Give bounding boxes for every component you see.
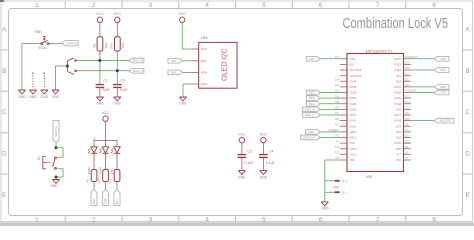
svg-text:D12: D12 (335, 123, 340, 126)
node junction ENC_B/R8/C1 (98, 59, 101, 62)
svg-text:GND: GND (29, 95, 37, 99)
svg-text:VCC: VCC (113, 12, 121, 16)
pin SDA of U1 (191, 71, 199, 73)
net flag ENC_B (ESP32 left) (303, 107, 321, 112)
svg-text:3: 3 (149, 2, 153, 9)
svg-text:IO19: IO19 (394, 96, 401, 100)
pin wire (262, 143, 264, 155)
svg-text:IO12: IO12 (350, 124, 357, 128)
op module U1 OLED I2C box (199, 42, 237, 88)
svg-text:SWITCH: SWITCH (303, 136, 314, 140)
svg-text:EC11: EC11 (38, 46, 46, 50)
svg-text:D10: D10 (335, 146, 340, 149)
column ticks top (65, 1, 406, 9)
svg-text:D11: D11 (335, 152, 340, 155)
wire (320, 108, 340, 110)
svg-text:IO0: IO0 (396, 130, 401, 134)
module U4 pin stubs right (404, 59, 411, 160)
capacitor C3 (113, 85, 122, 88)
column ticks bottom (65, 216, 406, 222)
pin GND of U1 (191, 83, 199, 85)
node junction ENC_A/R10/C3 (116, 69, 119, 72)
wire S1 pin bridge top (56, 148, 63, 158)
svg-text:5: 5 (262, 2, 266, 9)
svg-text:IO14: IO14 (350, 119, 357, 123)
svg-text:J1-1: J1-1 (341, 190, 347, 194)
svg-text:BLU: BLU (309, 102, 315, 106)
row ticks right (463, 50, 473, 174)
svg-text:D35: D35 (335, 84, 340, 87)
svg-text:IO13: IO13 (350, 136, 357, 140)
node junction S1 top (55, 146, 58, 149)
net flag SWITCH (above S1) (53, 120, 59, 143)
svg-text:D17: D17 (405, 112, 410, 115)
svg-text:2: 2 (92, 2, 96, 9)
svg-text:GND: GND (440, 57, 446, 61)
pin wire (99, 87, 101, 97)
svg-text:GND: GND (440, 91, 446, 95)
wire (116, 55, 118, 84)
svg-text:D18: D18 (405, 101, 410, 104)
svg-text:IO5: IO5 (396, 108, 401, 112)
frame row letters left (2, 26, 7, 199)
svg-text:R8: R8 (92, 43, 96, 47)
svg-text:R3: R3 (108, 179, 112, 183)
pin wire (116, 23, 118, 37)
svg-text:VCC: VCC (178, 12, 186, 16)
row ticks left (1, 50, 9, 174)
svg-text:C2: C2 (247, 150, 251, 154)
net flag SCL (168, 58, 183, 63)
svg-text:6: 6 (319, 2, 323, 9)
net flag BUZZER (ESP32 right) (434, 118, 454, 123)
svg-text:RED: RED (92, 199, 96, 205)
svg-text:A: A (2, 26, 7, 33)
net flag GRN (103, 190, 109, 206)
svg-text:GND: GND (394, 91, 402, 95)
svg-text:VCC: VCC (102, 111, 110, 115)
svg-text:GND: GND (96, 102, 104, 106)
wire LED branch (94, 141, 117, 147)
svg-text:ENC_B: ENC_B (133, 59, 143, 63)
net flag RED (91, 190, 97, 206)
wire (49, 43, 62, 45)
svg-text:IO21: IO21 (394, 85, 401, 89)
pin wire (116, 87, 118, 97)
bottom gray band (0, 222, 474, 226)
svg-text:GND: GND (50, 184, 58, 188)
frame column numbers bottom (35, 216, 436, 223)
ground (179, 97, 186, 101)
net flag ENC_B (129, 58, 144, 63)
svg-text:C4: C4 (269, 150, 273, 154)
svg-text:R2: R2 (97, 179, 101, 183)
wire (56, 66, 68, 90)
LED D3 (111, 147, 120, 154)
LED D2 (100, 147, 109, 154)
ground (18, 90, 25, 94)
svg-text:D: D (2, 151, 7, 158)
wire (411, 69, 434, 71)
wire (411, 120, 434, 122)
svg-text:IO35: IO35 (350, 85, 357, 89)
pin wire (116, 51, 118, 55)
net flag GND (ESP32 right) (434, 90, 449, 95)
svg-text:GND: GND (350, 130, 358, 134)
switch SW1 contacts and lever (41, 40, 49, 44)
svg-text:7: 7 (376, 2, 380, 9)
wire (21, 44, 23, 90)
LED D1 (88, 147, 97, 154)
net flag GRN (ESP32 left) (307, 96, 321, 101)
svg-text:3V3: 3V3 (350, 57, 356, 61)
wire (411, 86, 434, 88)
pin wire (105, 121, 107, 140)
svg-text:BUZZER: BUZZER (440, 119, 451, 123)
switch SW1 actuator (43, 37, 46, 41)
svg-text:IO16: IO16 (394, 119, 401, 123)
net flag GND (ESP32 left) (306, 130, 321, 135)
wire (55, 177, 57, 179)
svg-text:C: C (465, 109, 470, 116)
net flag SCL (ESP32 right) (434, 68, 449, 73)
svg-text:GND: GND (260, 176, 268, 180)
svg-text:SWITCH: SWITCH (67, 41, 78, 45)
svg-text:IO27: IO27 (350, 113, 357, 117)
svg-text:D34: D34 (335, 79, 340, 82)
svg-text:10K: 10K (104, 43, 108, 48)
svg-text:GRN: GRN (309, 96, 315, 100)
svg-text:VN-IO39: VN-IO39 (350, 74, 362, 78)
svg-text:BLU: BLU (115, 199, 119, 204)
encoder rotary contacts: common pole (67, 58, 76, 75)
svg-text:U$1: U$1 (201, 35, 209, 40)
svg-text:GND: GND (18, 95, 26, 99)
wire (411, 92, 434, 94)
capacitor C1 (96, 85, 105, 88)
svg-text:GRN: GRN (104, 198, 108, 204)
svg-text:VP-IO36: VP-IO36 (350, 68, 362, 72)
wire VIN net (325, 160, 340, 181)
encoder switch dashed pin (43, 73, 45, 89)
svg-text:C3: C3 (121, 78, 125, 82)
svg-text:U$4: U$4 (366, 175, 373, 179)
ground (52, 90, 59, 94)
pin J1-1 of connector J1 (335, 191, 340, 193)
svg-text:IO7: IO7 (396, 152, 401, 156)
svg-text:22nF: 22nF (120, 88, 128, 92)
svg-text:B: B (465, 68, 469, 75)
svg-text:4: 4 (205, 216, 209, 223)
svg-text:J1-2: J1-2 (341, 179, 347, 183)
ground (29, 90, 36, 94)
net flag SDA (ESP32 right) (434, 85, 449, 90)
svg-text:150R: 150R (87, 166, 91, 174)
ground (114, 97, 121, 101)
wire (320, 97, 340, 99)
resistor R3 (114, 170, 120, 182)
ground (238, 171, 245, 175)
svg-text:IO10: IO10 (350, 147, 357, 151)
pin wire (99, 23, 101, 37)
net flag SWITCH (62, 41, 78, 46)
svg-text:D: D (465, 151, 470, 158)
svg-text:IO6: IO6 (396, 158, 401, 162)
wire (99, 55, 101, 84)
svg-text:IO26: IO26 (350, 108, 357, 112)
svg-text:GND: GND (114, 102, 122, 106)
svg-text:0.1uF: 0.1uF (266, 161, 275, 165)
svg-text:IO9: IO9 (350, 141, 355, 145)
svg-text:IO32: IO32 (350, 91, 357, 95)
pin wire (241, 143, 243, 155)
pin wire (241, 157, 243, 170)
svg-text:S1: S1 (37, 156, 41, 160)
ground (260, 171, 267, 175)
svg-text:SW1: SW1 (35, 30, 43, 34)
frame corner notch (0, 0, 4, 2)
svg-text:SWITCH: SWITCH (54, 126, 58, 137)
svg-text:ENC_B: ENC_B (305, 107, 315, 111)
net flag BLU (114, 190, 120, 206)
wire (183, 84, 191, 97)
wire (183, 60, 191, 62)
svg-text:IO33: IO33 (350, 96, 357, 100)
svg-text:SCL: SCL (201, 59, 207, 63)
svg-text:IO1: IO1 (396, 74, 401, 78)
svg-text:VIN: VIN (350, 158, 355, 162)
wire net ENC_B (76, 60, 129, 62)
svg-text:VIN: VIN (333, 185, 339, 189)
svg-text:EN: EN (350, 63, 354, 67)
svg-text:0.1uF: 0.1uF (244, 161, 253, 165)
svg-text:E: E (465, 192, 469, 199)
svg-text:D19: D19 (405, 95, 410, 98)
wire (22, 43, 41, 45)
svg-text:D22: D22 (405, 67, 410, 70)
svg-text:SDA: SDA (440, 85, 446, 89)
svg-text:GND: GND (394, 57, 402, 61)
svg-text:5: 5 (262, 216, 266, 223)
svg-text:IO17: IO17 (394, 113, 401, 117)
svg-text:C: C (2, 109, 7, 116)
resistor R1 (91, 170, 97, 182)
svg-text:E: E (2, 192, 6, 199)
svg-text:10K: 10K (121, 43, 125, 48)
svg-text:VCC: VCC (309, 57, 315, 61)
capacitor C2 (238, 155, 247, 158)
wire (320, 137, 340, 139)
net flag BLU (ESP32 left) (307, 101, 321, 106)
resistor R10 (115, 37, 121, 51)
svg-text:IO4: IO4 (396, 124, 401, 128)
resistor R2 (103, 170, 109, 182)
svg-text:IO3: IO3 (396, 79, 401, 83)
pin VCC of U1 (191, 48, 199, 50)
net flag RED (ESP32 left) (307, 90, 321, 95)
svg-text:6: 6 (319, 216, 323, 223)
svg-text:VCC: VCC (260, 132, 268, 136)
module U4 pin stubs left (340, 59, 347, 160)
svg-text:VCC: VCC (201, 47, 208, 51)
svg-text:ENC_A: ENC_A (305, 113, 315, 117)
net flag ENC_A (129, 68, 144, 73)
svg-text:47R: 47R (110, 168, 114, 174)
svg-text:A: A (465, 26, 470, 33)
svg-text:SDA: SDA (171, 71, 177, 75)
wire (320, 114, 340, 116)
svg-text:RED: RED (309, 91, 315, 95)
encoder switch dashed pin (32, 73, 34, 89)
svg-text:8: 8 (432, 2, 436, 9)
svg-text:ESP32DEVKITV1: ESP32DEVKITV1 (366, 49, 392, 53)
svg-text:IO22: IO22 (394, 68, 401, 72)
svg-text:IO15: IO15 (394, 141, 401, 145)
svg-text:C1: C1 (103, 78, 107, 82)
svg-text:1: 1 (35, 2, 39, 9)
wire (55, 143, 57, 148)
frame row letters right (465, 26, 470, 199)
wire (183, 71, 191, 73)
svg-text:R10: R10 (110, 43, 114, 49)
pin SCL of U1 (191, 60, 199, 62)
svg-text:D23: D23 (405, 62, 410, 65)
svg-text:GND: GND (201, 82, 209, 86)
ground (41, 90, 48, 94)
resistor R8 (97, 37, 103, 51)
svg-text:R1: R1 (85, 179, 89, 183)
svg-text:SDA: SDA (201, 71, 208, 75)
wire (320, 58, 340, 60)
svg-text:IO11: IO11 (350, 152, 357, 156)
pin wire (262, 157, 264, 170)
switch S1 contacts and lever (53, 157, 57, 169)
svg-text:D21: D21 (405, 84, 410, 87)
svg-text:SCL: SCL (171, 59, 177, 63)
net flag SWITCH (ESP32 left) (301, 135, 321, 140)
svg-text:22nF: 22nF (102, 88, 110, 92)
capacitor C4 (259, 155, 268, 158)
svg-text:IO34: IO34 (350, 79, 357, 83)
svg-text:B: B (2, 68, 6, 75)
wire (182, 23, 191, 50)
node encoder common junction (66, 65, 69, 68)
wires resistors to flags (94, 182, 117, 190)
svg-text:100R: 100R (99, 166, 103, 174)
pin J1-2 of connector J1 (335, 180, 340, 182)
svg-text:SCL: SCL (440, 68, 446, 72)
svg-text:2: 2 (92, 216, 96, 223)
switch S1 actuator (43, 157, 52, 169)
svg-text:IO2: IO2 (396, 136, 401, 140)
wire GND net to J1-1 (325, 181, 335, 202)
svg-text:GND: GND (41, 95, 49, 99)
pin wires LEDs to resistors (94, 153, 117, 169)
module U4 ESP32 box (347, 54, 404, 172)
ground (96, 97, 103, 101)
node junction S1 bottom (55, 176, 58, 179)
svg-text:OLED I2C: OLED I2C (220, 48, 229, 81)
svg-text:3: 3 (149, 216, 153, 223)
net flag SDA (168, 70, 183, 75)
svg-text:IO25: IO25 (350, 102, 357, 106)
svg-text:GND: GND (321, 207, 329, 211)
svg-text:7: 7 (376, 216, 380, 223)
svg-text:VCC: VCC (238, 132, 246, 136)
svg-text:ENC_A: ENC_A (133, 69, 143, 73)
wire (411, 58, 434, 60)
svg-text:1: 1 (35, 216, 39, 223)
wire S1 pin bridge bottom (56, 169, 63, 177)
svg-text:D14: D14 (335, 118, 340, 121)
wire net ENC_A (76, 70, 129, 72)
svg-text:4: 4 (205, 2, 209, 9)
svg-text:IO23: IO23 (394, 63, 401, 67)
ground (321, 202, 328, 206)
svg-text:GND: GND (238, 176, 246, 180)
frame column numbers top (35, 2, 436, 9)
wire (320, 131, 340, 133)
svg-text:D15: D15 (405, 140, 410, 143)
svg-text:D16: D16 (405, 118, 410, 121)
svg-text:IO18: IO18 (394, 102, 401, 106)
wire (320, 103, 340, 105)
svg-text:GND: GND (52, 95, 60, 99)
net flag ENC_A (ESP32 left) (303, 113, 321, 118)
ground (52, 180, 59, 184)
svg-text:8: 8 (432, 216, 436, 223)
svg-text:Combination Lock V5: Combination Lock V5 (343, 15, 449, 32)
svg-text:GND: GND (179, 102, 187, 106)
svg-text:IO8: IO8 (396, 147, 401, 151)
wire (320, 92, 340, 94)
svg-text:VCC: VCC (96, 12, 104, 16)
pin wire (99, 51, 101, 55)
net flag GND (ESP32 right) (434, 56, 449, 61)
net flag VCC (ESP32 left) (307, 56, 321, 61)
svg-text:GND: GND (308, 130, 314, 134)
